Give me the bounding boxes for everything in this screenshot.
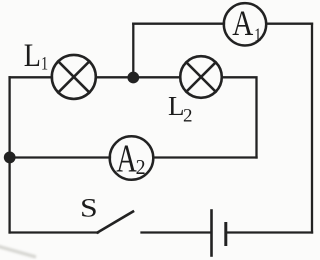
lamp L2 [180, 56, 222, 98]
wire battery to bottom-right corner [226, 231, 312, 233]
battery long plate [210, 211, 213, 256]
switch S blade [98, 212, 134, 233]
battery short plate [224, 224, 227, 245]
svg-text:A: A [232, 5, 254, 44]
wire right vertical [311, 24, 313, 233]
scan smudge bottom-left [0, 246, 36, 257]
svg-text:A: A [116, 138, 137, 180]
svg-text:2: 2 [136, 157, 146, 180]
wire A2 row right segment [153, 156, 256, 158]
svg-text:1: 1 [41, 52, 48, 73]
wire A2 row left segment [10, 156, 110, 158]
label A2 subscript [136, 157, 146, 180]
wire switch to battery [142, 231, 212, 233]
svg-text:L: L [24, 37, 41, 74]
wire bottom run to switch [10, 231, 98, 233]
label L1 subscript [41, 52, 48, 73]
wire top run to A1 [133, 23, 224, 25]
label L2 subscript [183, 105, 193, 126]
label A1 letter [232, 5, 254, 44]
node junction dot top [127, 72, 139, 84]
label A1 subscript [254, 24, 261, 45]
wire junction node to L2 [133, 76, 180, 78]
ammeter A2 [110, 136, 154, 180]
lamp L1 [52, 55, 96, 99]
label L1 letter [24, 37, 41, 74]
wire L2 tail and drop to A2 row [222, 77, 257, 157]
label A2 letter [116, 138, 137, 180]
svg-text:1: 1 [254, 24, 261, 45]
label L2 letter [168, 91, 185, 121]
svg-text:S: S [80, 194, 98, 223]
node junction dot left [4, 152, 16, 164]
svg-text:2: 2 [183, 105, 193, 126]
wire L1 row left segment [10, 76, 52, 78]
label S switch [80, 194, 98, 223]
wire junction riser [132, 24, 134, 78]
ammeter A1 [224, 3, 266, 45]
wire left vertical [8, 77, 10, 232]
wire L1 to junction node [96, 76, 134, 78]
wire A1 to top-right corner [266, 23, 312, 25]
